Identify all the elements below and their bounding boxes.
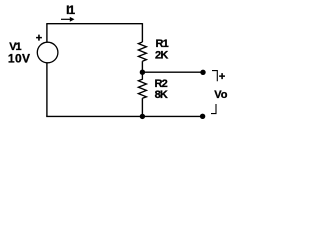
output port bracket top <box>212 71 217 82</box>
svg-text:I1: I1 <box>66 3 75 17</box>
resistor R2 zigzag <box>138 72 146 98</box>
wire middle node to plus terminal <box>142 71 203 73</box>
bottom rail wire <box>46 115 202 117</box>
svg-text:10V: 10V <box>8 51 31 65</box>
wire from V1 bottom down to bottom rail <box>46 63 48 117</box>
wire top horizontal <box>46 23 142 25</box>
voltage source V1 circle <box>37 42 58 63</box>
current arrow I1 <box>61 17 75 22</box>
wire down from corner to R1 <box>141 23 143 42</box>
svg-text:+: + <box>219 71 225 83</box>
wire from V1 top up to corner <box>46 24 48 43</box>
svg-text:Vo: Vo <box>214 89 228 101</box>
svg-text:R1: R1 <box>156 38 169 50</box>
wire from R2 bottom to bottom node <box>141 98 143 116</box>
svg-text:8K: 8K <box>155 89 168 101</box>
plus terminal dot <box>200 70 205 75</box>
resistor R1 zigzag <box>138 42 146 61</box>
middle node junction dot <box>140 70 145 75</box>
svg-text:2K: 2K <box>155 49 168 61</box>
wire from R1 bottom to middle node <box>141 61 143 72</box>
minus terminal dot <box>200 114 205 119</box>
output port bracket bottom <box>211 104 216 114</box>
bottom node junction dot <box>140 114 145 119</box>
svg-text:+: + <box>36 33 42 45</box>
